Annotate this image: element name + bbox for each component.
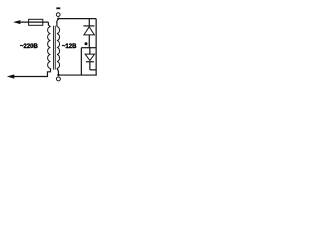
diode D2 triangle [85,54,94,60]
wire top rail [58,18,96,20]
diode D1 triangle [84,27,95,35]
wire to primary [48,22,50,27]
wire D2 stub to right edge [90,69,96,71]
wire secondary top lead [57,19,59,27]
transformer core [53,26,55,70]
wire right edge [95,19,97,75]
wire D1 to mid node [88,35,90,48]
wire to diode D1 [88,19,90,26]
svg-text:~12В: ~12В [62,44,77,50]
wire mid horizontal [81,47,96,49]
arrow input top (mains plug) [13,20,20,24]
transformer T1 secondary winding [57,27,60,69]
node top junction [57,18,59,20]
wire left edge of lower loop [80,48,82,75]
arrow input bottom (mains plug) [7,74,15,78]
diode D1 cathode bar [83,25,94,27]
wire primary bottom [14,68,51,76]
node bottom junction [57,74,59,76]
wire D2 bottom [89,62,91,70]
terminal circle bottom [56,77,60,81]
polarity dash [56,7,60,9]
diode D2 cathode bar [86,61,94,63]
node mid junction [85,42,88,45]
wire secondary bottom lead [57,68,58,75]
wire bottom rail [58,74,96,76]
wire top input [19,21,48,23]
transformer T1 primary winding [48,27,51,69]
terminal circle top [56,13,60,17]
svg-text:~220В: ~220В [20,44,39,50]
fuse FU1 [29,19,43,25]
wire mid node to diode D2 [89,48,91,54]
